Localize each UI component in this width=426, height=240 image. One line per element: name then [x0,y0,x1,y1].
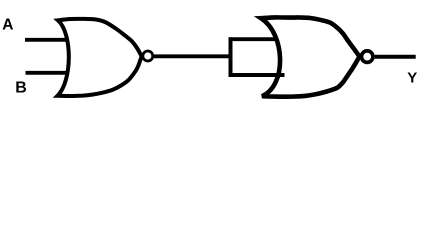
wire U2 upper input stub [229,37,278,41]
NOR gate U2 body [261,17,359,96]
wire U1 output to junction [154,54,231,58]
wire U2 output [375,55,416,59]
wire input B [26,71,68,75]
NOR gate U1 body [58,19,142,96]
wire input A [25,38,67,42]
svg-text:A: A [2,17,13,34]
junction tie bar (shorting both U2 inputs) [229,37,233,77]
svg-text:Y: Y [407,70,417,87]
NOR gate U1 inversion bubble [143,51,153,61]
svg-text:B: B [15,80,27,97]
NOR gate U2 inversion bubble [361,51,373,63]
wire U2 lower input stub [229,73,285,77]
